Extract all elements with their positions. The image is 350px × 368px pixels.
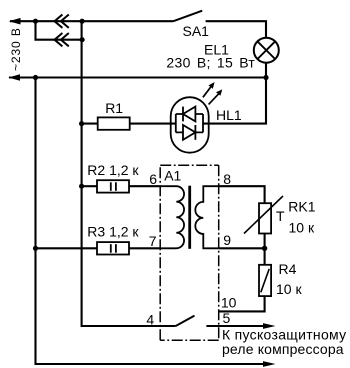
- svg-text:реле компрессора: реле компрессора: [222, 341, 344, 357]
- wire L top (mains phase to SA1): [10, 20, 173, 22]
- node dot branch wire at bus: [80, 37, 85, 42]
- svg-text:5: 5: [223, 310, 231, 326]
- transformer T1 core: [188, 186, 191, 249]
- wire SA1 to lamp EL1: [206, 21, 266, 38]
- svg-text:R2 1,2 к: R2 1,2 к: [87, 162, 139, 178]
- resistor R4: [259, 265, 271, 296]
- svg-text:230 В; 15 Вт: 230 В; 15 Вт: [166, 55, 255, 71]
- node dot N wire at left bus: [33, 75, 38, 80]
- connector contact chevron 1 lower wire: [55, 33, 63, 46]
- node dot bus at R1: [79, 121, 84, 126]
- switch SA1 blade: [173, 11, 202, 22]
- wire N main horizontal: [9, 76, 266, 78]
- node dot bus at R2: [79, 184, 84, 189]
- svg-text:A1: A1: [164, 167, 181, 183]
- wire R3 to pin 7: [129, 247, 160, 249]
- HL1 light emission arrow 2: [209, 89, 223, 104]
- wire lamp bottom lead: [265, 63, 267, 78]
- arrow output bottom N: [263, 361, 276, 367]
- svg-text:R4: R4: [279, 261, 297, 277]
- wire N bus to R3: [36, 247, 98, 249]
- svg-text:R1: R1: [105, 100, 123, 116]
- svg-text:R3 1,2 к: R3 1,2 к: [87, 224, 139, 240]
- switch contact 4-5 blade: [176, 316, 195, 326]
- svg-text:RK1: RK1: [288, 199, 315, 215]
- wire pin 8 to RK1 top: [219, 186, 265, 203]
- wire R2 to pin 6: [129, 185, 160, 187]
- wire L bus vertical and pin 4 lead: [82, 21, 176, 326]
- wire bus to R1: [82, 123, 98, 125]
- svg-text:10 к: 10 к: [276, 281, 302, 297]
- svg-text:6: 6: [149, 171, 157, 187]
- resistor R2: [97, 180, 129, 192]
- transformer T1 secondary winding: [195, 186, 218, 248]
- svg-text:T: T: [276, 208, 285, 224]
- resistor R3: [97, 242, 129, 254]
- thermistor RK1: [244, 196, 283, 234]
- connector contact chevron 2 upper wire: [61, 15, 69, 28]
- wire pin 5 output: [206, 325, 265, 327]
- resistor R1: [98, 117, 130, 129]
- wire bus to R2: [82, 185, 97, 187]
- svg-text:4: 4: [146, 312, 154, 328]
- wire RK1 bottom to node: [264, 234, 266, 249]
- wire lamp junction down to HL1: [203, 78, 266, 124]
- node dot L wire at connector branch: [33, 19, 38, 24]
- svg-text:9: 9: [223, 232, 231, 248]
- node dot N bus at R3: [33, 246, 38, 251]
- HL1 light emission arrow 1: [203, 82, 215, 97]
- node dot N wire at lamp leg: [263, 75, 268, 80]
- arrow mains top: [9, 18, 21, 25]
- node junction RK1-R4-pin9: [262, 246, 267, 251]
- module A1 dash-dot box: [160, 165, 219, 340]
- wire N bus left vertical and bottom output: [36, 78, 266, 365]
- node dot L wire at bus: [80, 19, 85, 24]
- wire R4 bottom to pin 10: [219, 296, 265, 311]
- connector contact chevron 2 lower wire: [61, 33, 69, 46]
- lamp EL1: [254, 38, 279, 63]
- svg-text:10 к: 10 к: [289, 220, 315, 236]
- wire pin 9 to node: [219, 247, 265, 249]
- svg-text:8: 8: [223, 171, 231, 187]
- LED indicator HL1 body: [171, 97, 209, 153]
- svg-text:~230 В: ~230 В: [9, 27, 23, 71]
- wire node to R4 top: [264, 248, 266, 264]
- svg-text:7: 7: [149, 233, 157, 249]
- svg-text:10: 10: [221, 295, 237, 311]
- transformer T1 primary winding: [160, 186, 184, 248]
- wire connector parallel branch: [36, 21, 82, 40]
- arrow mains bottom: [8, 74, 20, 81]
- svg-text:SA1: SA1: [183, 23, 210, 39]
- arrow output pin 5: [263, 323, 276, 329]
- connector contact chevron 1 upper wire: [55, 15, 63, 28]
- svg-text:HL1: HL1: [216, 107, 242, 123]
- wire R1 to HL1: [130, 123, 176, 125]
